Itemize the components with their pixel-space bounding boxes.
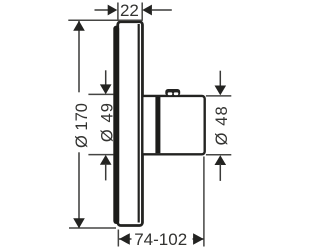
handle grip tab slot right (174, 92, 179, 95)
handle grip tab slot left (168, 92, 173, 95)
dimension D48 arrow bottom (215, 155, 227, 165)
svg-text:Ø 49: Ø 49 (98, 102, 116, 142)
dimension 74-102 extension line left (117, 230, 119, 247)
dimension D49 arrow top (100, 84, 112, 94)
dimension 22 line left (95, 9, 109, 11)
dimension D49 tail line bottom (105, 164, 107, 181)
dimension D48 bottom extension line (206, 154, 231, 156)
dimension D48 top extension line (206, 95, 231, 97)
dimension D170 line (78, 21, 80, 228)
dimension D49 tail line top (105, 70, 107, 85)
dimension D170 arrow bottom (73, 218, 85, 228)
svg-text:Ø 170: Ø 170 (73, 103, 91, 148)
dimension 22 arrow right (142, 5, 152, 16)
plate front face inner line (138, 24, 140, 223)
handle collar thick bar (155, 97, 160, 153)
dimension D49 arrow bottom (100, 155, 112, 165)
dimension 74-102 label background (132, 231, 193, 247)
dimension 22 extension line right (141, 3, 143, 20)
dimension D170 label background (70, 92, 89, 152)
dimension D170 arrow top (73, 21, 85, 31)
dimension 74-102 extension line right (203, 157, 205, 247)
dimension 22 arrow left (108, 5, 118, 16)
svg-text:22: 22 (120, 1, 139, 20)
dimension 22 line right (152, 9, 172, 11)
dimension D49 bottom extension line (88, 154, 113, 156)
svg-text:Ø 48: Ø 48 (213, 105, 231, 145)
dimension D48 arrow top (215, 86, 227, 96)
dimension D48 tail line bottom (219, 164, 221, 181)
handle grip tab (165, 89, 180, 96)
svg-text:74-102: 74-102 (134, 230, 187, 249)
dimension D49 top extension line (88, 93, 113, 95)
handle body (side view) (144, 96, 205, 154)
dimension 22 extension line left (117, 3, 119, 20)
dimension D170 top extension line (68, 19, 143, 21)
dimension 74-102 arrow left (119, 233, 130, 245)
dimension 74-102 line (119, 238, 204, 240)
dimension 74-102 arrow right (193, 233, 204, 245)
dimension D48 tail line top (219, 71, 221, 87)
dimension D170 bottom extension line (69, 227, 116, 229)
plate rim thick edge (left) (113, 29, 119, 221)
wall plate escutcheon (side view) (118, 22, 143, 226)
